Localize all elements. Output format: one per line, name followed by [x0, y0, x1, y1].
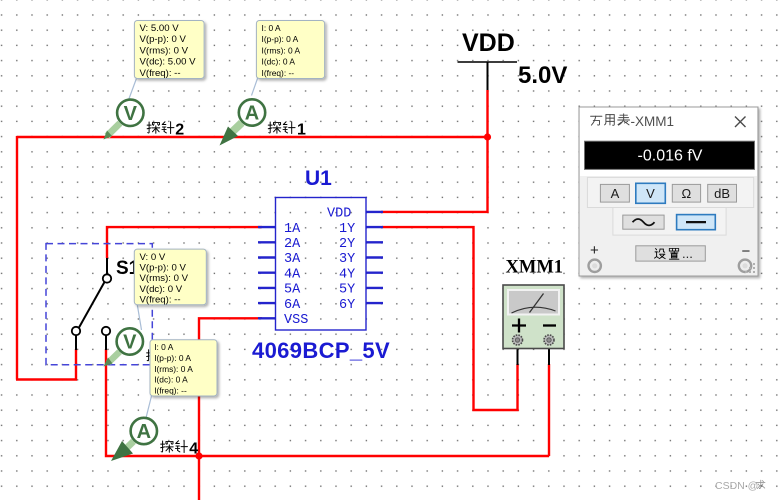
display black screen — [585, 141, 755, 169]
wire: junction down and left to U1 VDD pin — [381, 137, 488, 212]
svg-text:V: 5.00 V: V: 5.00 V — [140, 23, 180, 34]
svg-text:4: 4 — [189, 441, 198, 458]
svg-text:U1: U1 — [305, 167, 332, 190]
svg-text:I(p-p): 0 A: I(p-p): 0 A — [262, 34, 299, 44]
probe 1 (current) arrow — [227, 120, 244, 137]
svg-text:V(freq): --: V(freq): -- — [140, 295, 181, 306]
U1 right pin stubs — [366, 212, 383, 303]
svg-text:VDD: VDD — [327, 207, 351, 222]
button AC — [623, 215, 664, 229]
svg-text:I: 0 A: I: 0 A — [154, 342, 174, 352]
probe 4 (current) circle — [131, 418, 157, 444]
svg-text:V(p-p): 0 V: V(p-p): 0 V — [140, 34, 187, 45]
wire: U1 1Y output to XMM1 plus terminal — [382, 227, 518, 410]
svg-text:−: − — [742, 243, 751, 260]
U1 pin names — [284, 207, 355, 328]
svg-text:A: A — [137, 421, 151, 443]
node: bottom rail junction dot — [195, 452, 202, 459]
svg-text:3A: 3A — [284, 252, 301, 267]
svg-text:2: 2 — [175, 122, 184, 139]
probe readout box 1 (V probe 2) — [134, 21, 204, 79]
svg-text:2A: 2A — [284, 237, 301, 252]
IC U1 (hex inverter 4069BCP_5V) body — [276, 198, 367, 331]
svg-text:V: 0 V: V: 0 V — [140, 252, 166, 263]
svg-text:V: V — [646, 186, 655, 201]
probe 3 (voltage) arrow — [106, 350, 122, 365]
multimeter XMM1 symbol leads — [517, 344, 519, 365]
svg-text:V(p-p): 0 V: V(p-p): 0 V — [140, 263, 187, 274]
window title bar text — [591, 116, 602, 125]
selection box (dashed) — [46, 244, 152, 365]
multimeter XMM1 symbol body — [503, 285, 564, 349]
probe leader wire box4 to probe 4 — [146, 396, 152, 418]
wire: XMM1 minus terminal down to bottom rail — [548, 364, 550, 456]
wire: top rail from left corner to VDD junction — [17, 136, 488, 138]
svg-text:4Y: 4Y — [339, 267, 355, 282]
svg-text:-0.016 fV: -0.016 fV — [638, 147, 703, 164]
probe 4 label — [161, 441, 174, 452]
svg-text:CSDN @.: CSDN @. — [715, 480, 761, 492]
wire: U1 VSS to bottom net — [199, 318, 262, 500]
probe readout box 4 (I probe 4) — [150, 340, 217, 396]
svg-text:6A: 6A — [284, 298, 301, 313]
svg-text:I(freq): --: I(freq): -- — [154, 385, 187, 395]
probe leader wire box1 to probe 2 — [129, 77, 138, 100]
svg-text:3Y: 3Y — [339, 252, 355, 267]
button DC (selected) — [677, 215, 716, 230]
probe readout box 2 (I probe 1) — [256, 21, 324, 79]
wire: U1 1A input from switch common — [107, 227, 262, 258]
svg-text:I: 0 A: I: 0 A — [262, 23, 282, 33]
svg-text:+: + — [590, 242, 599, 259]
settings button — [636, 246, 706, 261]
svg-text:I(freq): --: I(freq): -- — [262, 68, 295, 78]
svg-text:I(rms): 0 A: I(rms): 0 A — [262, 45, 301, 55]
svg-text:2Y: 2Y — [339, 237, 355, 252]
probe readout box 3 (V probe 3) — [134, 249, 206, 305]
button A — [600, 184, 629, 202]
svg-text:A: A — [611, 186, 620, 201]
probe 1 (current) circle — [239, 99, 265, 125]
window plus terminal — [589, 260, 601, 272]
probe leader wire box3 to probe 3 — [137, 303, 142, 330]
svg-text:V(rms): 0 V: V(rms): 0 V — [140, 273, 189, 284]
window minus terminal — [739, 260, 751, 272]
U1 left pin stubs — [258, 227, 276, 318]
svg-text:1: 1 — [297, 122, 306, 139]
svg-text:5A: 5A — [284, 283, 301, 298]
svg-text:VSS: VSS — [284, 313, 308, 328]
svg-text:V(dc): 5.00 V: V(dc): 5.00 V — [140, 57, 197, 68]
probe 3 label (mostly hidden) — [147, 350, 160, 361]
svg-text:Ω: Ω — [682, 186, 692, 201]
window close button — [735, 117, 746, 128]
probe 4 (current) arrow — [122, 439, 136, 453]
svg-text:VDD: VDD — [462, 29, 515, 57]
svg-text:1A: 1A — [284, 222, 301, 237]
svg-text:V(rms): 0 V: V(rms): 0 V — [140, 45, 189, 56]
wire: VDD symbol down to junction — [486, 90, 488, 137]
svg-text:I(rms): 0 A: I(rms): 0 A — [154, 364, 193, 374]
svg-text:-XMM1: -XMM1 — [631, 114, 675, 129]
svg-text:I(p-p): 0 A: I(p-p): 0 A — [154, 353, 191, 363]
svg-text:V(dc): 0 V: V(dc): 0 V — [140, 284, 183, 295]
svg-text:4069BCP_5V: 4069BCP_5V — [252, 338, 390, 363]
svg-text:5.0V: 5.0V — [518, 62, 567, 89]
probe 2 (voltage) circle — [117, 100, 143, 126]
button ohm — [672, 184, 700, 202]
svg-text:6Y: 6Y — [339, 298, 355, 313]
svg-text:4A: 4A — [284, 267, 301, 282]
svg-text:...: ... — [682, 246, 693, 261]
probe leader wire box2 to probe 1 — [252, 77, 259, 96]
button dB — [708, 184, 737, 202]
wire: bottom-left run to switch left pole — [16, 349, 76, 380]
multimeter dialog window XMM1 — [579, 107, 758, 276]
svg-text:V: V — [124, 103, 138, 125]
svg-text:5Y: 5Y — [339, 283, 355, 298]
probe 3 (voltage) circle — [117, 328, 143, 354]
wire: switch right pole down to bottom rail — [106, 349, 549, 456]
probe 2 label — [147, 122, 160, 133]
wire: left vertical drop — [16, 136, 18, 380]
probe 2 (voltage) arrow — [105, 121, 123, 139]
probe 1 label — [268, 122, 281, 133]
svg-text:XMM1: XMM1 — [506, 258, 564, 278]
svg-text:A: A — [245, 103, 259, 125]
node: VDD junction dot — [484, 133, 491, 140]
svg-text:dB: dB — [714, 186, 730, 201]
display white backing — [580, 108, 757, 177]
svg-text:1Y: 1Y — [339, 222, 355, 237]
svg-text:I(dc): 0 A: I(dc): 0 A — [262, 57, 296, 67]
svg-text:V(freq): --: V(freq): -- — [140, 68, 181, 79]
resize grip — [745, 263, 755, 273]
button V (selected) — [636, 183, 666, 203]
svg-text:I(dc): 0 A: I(dc): 0 A — [154, 375, 188, 385]
switch S1 — [76, 258, 107, 350]
button panel group boxes — [587, 177, 753, 207]
svg-text:V: V — [123, 332, 137, 354]
